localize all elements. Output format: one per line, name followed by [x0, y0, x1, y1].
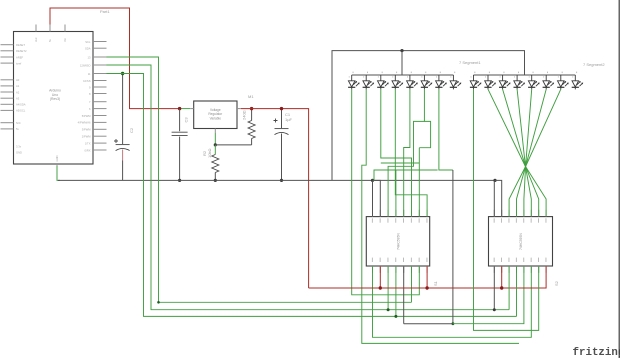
wire green segment1-b long drop to bottom row: [362, 89, 519, 343]
junction nested outer corner: [157, 301, 160, 304]
svg-text:SCL: SCL: [85, 40, 91, 44]
wire green segment1-g jog to U1 top pin4: [374, 170, 438, 180]
voltage regulator U2 label: [208, 108, 223, 120]
wire green segment1-e to U1 top pin5: [404, 89, 410, 216]
regulator input pin stub: [190, 108, 194, 110]
wire green node VIN to regulator input pin: [180, 108, 191, 110]
junction GND bus end / U3 pin1 drop: [493, 179, 496, 182]
svg-text:(Rev3): (Rev3): [50, 97, 60, 101]
wire green fan segment2-b to U3 pin8: [488, 89, 546, 216]
wire green regulator adj down to node ADJ: [214, 133, 216, 145]
LED segment1-g: [435, 72, 447, 90]
node ADJ junction: [214, 143, 217, 146]
svg-text:GND: GND: [16, 151, 22, 155]
Arduino bottom pin GND: [56, 164, 58, 167]
wire green U1 pin4 bottom drop: [395, 266, 397, 316]
regulator output pin stub: [237, 108, 241, 110]
wire red 5V from Arduino top to node VIN rail: [50, 8, 180, 109]
IC U3 pin marks: [494, 218, 547, 262]
wire red U1 pin2 bottom: [379, 266, 381, 288]
svg-text:240Ω: 240Ω: [242, 110, 247, 120]
svg-text:Variable: Variable: [210, 116, 222, 120]
svg-text:RESET: RESET: [16, 43, 25, 47]
LED segment1-c: [377, 72, 389, 90]
regulator adj pin stub: [214, 129, 216, 134]
wire green U3 pin4 bottom drop: [516, 266, 518, 316]
junction U1 pin3 / row3: [387, 308, 390, 311]
svg-text:Part1: Part1: [100, 9, 110, 14]
wire black GND bus to U1 pin2: [373, 180, 381, 216]
wire black GND bus to U1 pin1: [372, 180, 374, 216]
LED segment1-a: [348, 72, 360, 90]
svg-text:4/PWM/A6: 4/PWM/A6: [78, 121, 91, 125]
svg-text:12/MISO: 12/MISO: [80, 63, 91, 67]
svg-text:0/RX: 0/RX: [85, 148, 91, 152]
LED segment1-dp: [450, 72, 462, 90]
svg-text:Vin: Vin: [63, 38, 67, 42]
wire green U1 pin1 bottom to U3 pin6 bottom: [373, 266, 532, 337]
resistor R2: [212, 155, 219, 173]
junction VCC line / 7segment1 stub: [400, 49, 403, 52]
svg-text:10/SS: 10/SS: [83, 79, 91, 83]
junction C1 top / output rail: [280, 107, 283, 110]
svg-text:AREF: AREF: [16, 55, 24, 59]
wire red U3 pin2 bottom: [501, 266, 503, 288]
svg-text:5/PWM: 5/PWM: [82, 114, 92, 118]
IC U1 top pin stubs: [373, 210, 428, 217]
svg-text:3v3: 3v3: [34, 37, 38, 42]
wire green segment1-d to U1 top pin8: [395, 89, 427, 216]
LED segment1-b: [363, 72, 375, 90]
LED segment2-dp: [572, 72, 584, 90]
wire green row5 right part to U3 pin5 bottom: [453, 266, 524, 323]
junction M1 top / output rail: [250, 107, 253, 110]
GND bus wire: [58, 179, 495, 181]
voltage regulator U2 body: [194, 101, 237, 129]
junction U3 pin1 / row3: [493, 308, 496, 311]
Arduino top pin labels: [34, 37, 67, 42]
svg-text:ioref: ioref: [16, 61, 21, 65]
wire green Arduino GND pin down: [57, 166, 60, 180]
svg-text:2/PWM: 2/PWM: [82, 135, 92, 139]
IC U1 pin marks: [372, 218, 428, 262]
svg-text:A5/SCL: A5/SCL: [16, 109, 26, 113]
junction C3/GND bus: [178, 179, 181, 182]
IC U3 74HC595 body: [489, 217, 553, 266]
LED segment2-e: [528, 72, 540, 90]
resistor M1 lead top: [251, 109, 253, 121]
wire green segment1-f to U1 top pin3: [388, 89, 424, 216]
wire black 7segment1 common stub: [401, 51, 403, 75]
node A junction (C3 top / VIN): [178, 107, 181, 110]
LED segment1-e: [406, 72, 418, 90]
capacitor C3 lead top: [179, 109, 181, 132]
LED segment2-b: [484, 72, 496, 90]
wire gray segment1-g long drop: [452, 170, 454, 324]
wire dark U3 pin1 bottom drop: [493, 266, 495, 309]
svg-text:A4/SDA: A4/SDA: [16, 103, 26, 107]
svg-text:7 Segment2: 7 Segment2: [583, 62, 605, 67]
wire red U1 pin8 bottom: [426, 266, 428, 288]
LED segment1-d: [392, 72, 404, 90]
wire green branch to U1 top pin7: [381, 162, 420, 164]
LED segment2-d: [514, 72, 526, 90]
IC U3 top pin stubs: [494, 210, 546, 217]
svg-text:74HC595N: 74HC595N: [519, 233, 523, 250]
svg-text:N/C: N/C: [16, 121, 21, 125]
Arduino left pin labels: [16, 43, 27, 155]
wire green D11 nested inner: [107, 74, 517, 317]
wire green fan segment2-c to U3 pin7: [503, 89, 539, 216]
wire red regulator output rail: [241, 109, 309, 288]
svg-text:S2: S2: [554, 280, 559, 286]
capacitor C3: [172, 132, 188, 135]
svg-text:SDA: SDA: [85, 47, 91, 51]
wire green pin7 drop: [418, 148, 420, 217]
LED segment1-f: [421, 72, 433, 90]
wire black VCC line to displays: [332, 51, 525, 181]
resistor M1: [248, 121, 255, 139]
wire black GND bus to U3 pin1: [493, 180, 495, 216]
svg-text:GND: GND: [55, 155, 59, 161]
wire green fan segment2-d to U3 pin6: [517, 89, 531, 216]
Arduino top pin VIN: [64, 25, 66, 32]
wire green fan segment2-g to U3 pin3: [509, 89, 561, 216]
Arduino top pin 5V: [49, 25, 51, 32]
junction R2 / GND bus: [214, 179, 217, 182]
svg-text:7 Segment1: 7 Segment1: [459, 60, 481, 65]
Arduino right pin labels: [78, 40, 92, 153]
wire green fan segment2-f to U3 pin4: [517, 89, 547, 216]
wire green fan segment2-e to U3 pin5: [524, 89, 532, 216]
resistor R2 lead bottom to GND bus: [214, 173, 216, 181]
junction U1 pin2 / red bus: [379, 286, 382, 289]
svg-text:fritzing: fritzing: [573, 347, 620, 358]
svg-text:3.3v: 3.3v: [16, 145, 22, 149]
wire green U1 pin3 bottom drop: [387, 266, 389, 309]
svg-text:1µF: 1µF: [285, 117, 293, 122]
IC U3 bottom pin stubs: [494, 266, 546, 273]
wire gray U1 pin5 bottom drop: [403, 266, 405, 323]
capacitor C1 lead top: [281, 109, 283, 128]
Arduino right pin stubs: [93, 42, 107, 151]
capacitor C1 lead bottom to GND bus: [281, 134, 283, 181]
wire green U3 pin3 bottom drop: [508, 266, 510, 309]
junction GND bus / U1 pin1 drop: [371, 179, 374, 182]
capacitor C2 lead top from node D9: [122, 74, 124, 145]
svg-text:C2: C2: [129, 127, 134, 133]
wire green segment1-g down: [439, 89, 453, 170]
wire black GND bus to U3 pin2: [495, 180, 502, 216]
svg-text:1/TX: 1/TX: [85, 141, 91, 145]
wire green D12 nested middle: [107, 65, 510, 310]
wire green segment1-c to U1 top pin6: [381, 89, 412, 216]
svg-text:A0: A0: [16, 78, 20, 82]
wire green segment2-a long drop to U3 pin7 bottom: [474, 89, 539, 330]
wire green jog drop to U1 top pin4: [395, 170, 397, 216]
svg-text:S1: S1: [433, 280, 438, 286]
capacitor C2 lead red stub: [122, 150, 124, 161]
svg-text:A3: A3: [16, 97, 20, 101]
IC U1 74HC595 body: [366, 217, 429, 266]
capacitor C2 plus sign: [114, 139, 118, 143]
capacitor C1 (polarized): [275, 129, 289, 135]
wire gray row5 left part: [404, 323, 453, 325]
wire green D13 nested outer: [107, 57, 412, 302]
window right border: [618, 0, 620, 358]
LED segment2-c: [499, 72, 511, 90]
junction U1 pin8 / red bus: [425, 286, 428, 289]
wire green segment1-a long drop to U1 pin7 bottom: [352, 89, 420, 295]
LED segment2-a: [470, 72, 482, 90]
wire green U1 pin6 bottom drop: [411, 266, 413, 302]
resistor M1 lead bottom: [251, 139, 253, 145]
junction drop / row5: [452, 322, 455, 325]
resistor R2 lead top: [214, 145, 216, 155]
LED segment2-f: [543, 72, 555, 90]
svg-text:10kΩ: 10kΩ: [207, 149, 212, 158]
svg-text:A2: A2: [16, 90, 20, 94]
IC U1 bottom pin stubs: [373, 266, 428, 273]
junction U1 pin4 / row4: [394, 315, 397, 318]
LED segment2-g: [557, 72, 569, 90]
junction C1 / GND bus: [280, 179, 283, 182]
svg-text:A1: A1: [16, 84, 20, 88]
svg-text:13: 13: [88, 55, 91, 59]
capacitor C2 (polarized): [116, 145, 130, 151]
Arduino label: [49, 89, 61, 102]
capacitor C3 lead bottom to GND bus: [179, 137, 181, 181]
svg-text:3/PWM: 3/PWM: [82, 128, 92, 132]
7segment1 common anode bus: [352, 74, 454, 76]
svg-text:C3: C3: [184, 117, 189, 123]
Arduino top pin 3V3: [35, 25, 37, 32]
7segment2 common anode bus: [474, 74, 576, 76]
junction U3 pin2 / red bus: [500, 286, 503, 289]
Arduino left pin stubs: [1, 45, 14, 129]
capacitor C2 lead bottom to GND bus: [122, 161, 124, 181]
wire green segment1-f right step: [419, 121, 430, 147]
wire node ADJ to resistor M1 bottom: [215, 144, 251, 146]
Arduino U-ARD body: [14, 32, 94, 165]
svg-text:RESET2: RESET2: [16, 49, 27, 53]
capacitor C1 plus sign: [274, 119, 278, 123]
svg-text:M1: M1: [248, 94, 254, 99]
red supply bus: [309, 266, 546, 288]
svg-text:74HC595N: 74HC595N: [397, 233, 401, 250]
junction node D9 (C2 tap on green wire): [121, 72, 124, 75]
